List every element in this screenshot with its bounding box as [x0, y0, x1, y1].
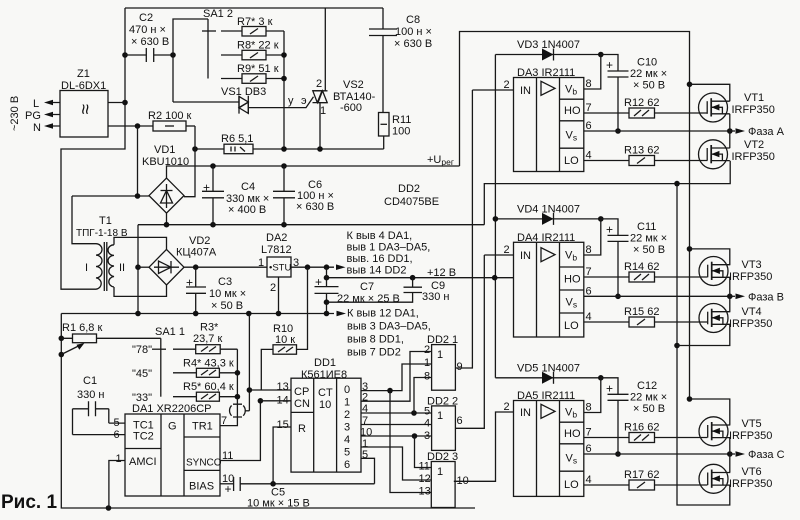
svg-text:HO: HO: [564, 428, 581, 440]
svg-text:DD2 3: DD2 3: [427, 451, 458, 463]
svg-text:VT2: VT2: [744, 139, 764, 151]
svg-text:10: 10: [319, 399, 331, 411]
svg-text:470 н ×: 470 н ×: [129, 24, 166, 36]
svg-text:4: 4: [424, 418, 430, 430]
svg-text:II: II: [119, 262, 125, 274]
resistor R2: [148, 110, 195, 131]
wire CP feed y=390: [249, 389, 291, 391]
wire +12V rail: [327, 277, 514, 279]
svg-text:выв 7 DD2: выв 7 DD2: [347, 347, 401, 359]
svg-text:PG: PG: [25, 110, 41, 122]
svg-text:+: +: [315, 275, 322, 289]
resistor R12 62: [584, 97, 708, 118]
svg-text:1: 1: [437, 349, 443, 361]
svg-text:330 н: 330 н: [422, 291, 449, 303]
svg-text:1: 1: [320, 105, 326, 117]
svg-text:22 мк ×: 22 мк ×: [630, 391, 667, 403]
wire R2 to VD1 right: [184, 126, 195, 197]
svg-text:4: 4: [344, 434, 350, 446]
svg-text:IN: IN: [520, 407, 531, 419]
svg-text:выв 14 DD2: выв 14 DD2: [347, 265, 407, 277]
op-amp driver DA4 IR2111: [514, 232, 584, 337]
svg-text:R3*: R3*: [200, 322, 219, 334]
svg-text:+12 В: +12 В: [427, 267, 456, 279]
wire DD2.1 out to DA3 IN: [455, 90, 472, 368]
svg-text:VD1: VD1: [154, 144, 175, 156]
node arrow to pins annotation 1: [336, 264, 346, 270]
wire N branch to VD1 left: [72, 126, 149, 196]
svg-text:R8* 22 к: R8* 22 к: [237, 40, 279, 52]
wire Vb pin 8 DA4: [584, 219, 601, 255]
transistor VT2 IRFP350: [699, 139, 775, 169]
resistor R15 62: [584, 306, 708, 327]
capacitor C6: [273, 166, 334, 225]
wire R3-R5 common to TR1: [220, 349, 237, 425]
svg-text:2: 2: [504, 244, 510, 256]
svg-text:6: 6: [586, 120, 592, 132]
svg-text:C1: C1: [83, 375, 97, 387]
svg-text:HO: HO: [564, 105, 581, 117]
svg-text:Фаза С: Фаза С: [748, 449, 785, 461]
svg-text:э: э: [301, 95, 307, 107]
transformer T1: [72, 196, 128, 291]
svg-text:IRFP350: IRFP350: [729, 430, 772, 442]
resistor R11: [379, 113, 412, 150]
svg-text:CD4075BE: CD4075BE: [384, 196, 439, 208]
svg-text:11: 11: [222, 450, 233, 462]
svg-text:Фаза А: Фаза А: [748, 126, 785, 138]
svg-text:VT4: VT4: [742, 306, 762, 318]
capacitor C7: [315, 267, 400, 313]
svg-text:2: 2: [270, 282, 276, 294]
wire jumper right to rail: [248, 314, 250, 411]
svg-text:IN: IN: [520, 250, 531, 262]
svg-text:LO: LO: [564, 479, 579, 491]
svg-text:22 мк × 25 В: 22 мк × 25 В: [337, 293, 400, 305]
resistor R14 62: [584, 261, 708, 282]
svg-text:5: 5: [362, 449, 368, 461]
resistor R17 62: [584, 469, 708, 490]
svg-text:10 мк × 15 В: 10 мк × 15 В: [247, 498, 310, 510]
svg-text:"45": "45": [132, 368, 152, 380]
pin 5 DA1: [109, 422, 125, 424]
wire VD1 minus rail y=224.7: [138, 213, 484, 225]
svg-text:LO: LO: [564, 155, 579, 167]
svg-text:3: 3: [344, 422, 350, 434]
resistor R7: [237, 16, 284, 36]
pin 10 DA1 BIAS: [220, 483, 234, 485]
svg-text:R17 62: R17 62: [624, 469, 659, 481]
svg-text:VS1 DB3: VS1 DB3: [221, 86, 266, 98]
switch SA1.2: [202, 8, 242, 79]
pin 1 DA1: [109, 461, 125, 509]
diode VD3 1N4007: [495, 39, 600, 61]
connector jumper X1: [230, 404, 250, 417]
svg-text:10: 10: [360, 427, 372, 439]
wire Vs pin 6 phase C: [584, 453, 730, 455]
svg-text:DL-6DX1: DL-6DX1: [61, 80, 106, 92]
svg-text:R16 62: R16 62: [624, 422, 659, 434]
svg-text:CT: CT: [318, 387, 333, 399]
svg-text:IRFP350: IRFP350: [729, 478, 772, 490]
pin 11 DA1 SYNCO: [220, 401, 260, 461]
wire out6 pin5 to reset loop: [361, 458, 375, 484]
svg-text:~230 В: ~230 В: [9, 96, 21, 131]
svg-text:Фаза В: Фаза В: [748, 291, 784, 303]
wire DA4 IN pin2: [484, 254, 513, 256]
svg-text:100: 100: [392, 126, 410, 138]
capacitor C12: [601, 378, 667, 454]
svg-text:6: 6: [344, 459, 350, 471]
svg-text:DA5 IR2111: DA5 IR2111: [517, 390, 575, 402]
wire Vs pin 6 phase A: [584, 130, 730, 132]
wire common rail y=313.5: [61, 313, 334, 315]
svg-text:R12 62: R12 62: [624, 97, 659, 109]
svg-text:22 мк ×: 22 мк ×: [630, 68, 667, 80]
wire DA2 output: [291, 266, 334, 268]
svg-text:1: 1: [344, 397, 350, 409]
svg-text:× 630 В: × 630 В: [296, 201, 334, 213]
svg-text:+: +: [225, 482, 232, 496]
svg-text:7: 7: [221, 415, 227, 427]
wire DA2 gnd pin2: [278, 277, 280, 314]
node junction dot Z1 upper: [122, 100, 128, 106]
svg-text:+: +: [203, 181, 210, 195]
regulator DA2 L7812: [258, 232, 299, 294]
svg-text:DA4 IR2111: DA4 IR2111: [517, 232, 575, 244]
svg-text:C3: C3: [218, 276, 232, 288]
svg-text:DD2 1: DD2 1: [427, 334, 458, 346]
svg-text:2: 2: [504, 79, 510, 91]
potentiometer R1: [61, 322, 161, 355]
rectifier VD2 КЦ407А: [138, 235, 217, 285]
svg-text:К выв 4 DA1,: К выв 4 DA1,: [347, 230, 413, 242]
counter DD1 К561ИЕ8: [291, 357, 361, 472]
svg-text:1: 1: [437, 410, 443, 422]
svg-text:LO: LO: [564, 320, 579, 332]
svg-text:R2 100 к: R2 100 к: [148, 110, 192, 122]
wire Z1 outputs: [108, 102, 125, 104]
capacitor C8: [369, 8, 432, 113]
svg-text:23,7 к: 23,7 к: [193, 333, 222, 345]
svg-text:5: 5: [424, 406, 430, 418]
svg-text:330 н: 330 н: [77, 389, 104, 401]
svg-text:× 400 В: × 400 В: [228, 204, 266, 216]
capacitor C10: [601, 55, 667, 132]
svg-text:10 мк ×: 10 мк ×: [209, 288, 246, 300]
wire secondary bottom to VD2: [114, 285, 167, 296]
svg-text:DD1: DD1: [314, 357, 336, 369]
wire DD2.2 out to DA4 IN: [455, 255, 484, 428]
svg-text:DA3 IR2111: DA3 IR2111: [517, 67, 575, 79]
svg-text:5: 5: [344, 447, 350, 459]
wire Vs pin 6 phase B: [584, 295, 730, 297]
diode VD4 1N4007: [495, 203, 600, 225]
svg-text:C2: C2: [139, 12, 153, 24]
svg-text:КЦ407А: КЦ407А: [176, 247, 217, 259]
svg-text:0: 0: [344, 384, 350, 396]
svg-text:1: 1: [424, 357, 430, 369]
resistor R6: [221, 133, 253, 154]
svg-text:выв. 16 DD1,: выв. 16 DD1,: [347, 253, 413, 265]
wire VT1 drain branch: [690, 84, 730, 101]
transistor VT4 IRFP350: [699, 304, 772, 333]
wire VT2 drain from phase A: [729, 131, 731, 148]
svg-text:SA1 2: SA1 2: [203, 8, 233, 20]
pin 6 DA1: [73, 434, 126, 436]
svg-text:R6 5,1: R6 5,1: [221, 133, 253, 145]
svg-text:-600: -600: [340, 102, 362, 114]
svg-text:выв 3 DA3–DA5,: выв 3 DA3–DA5,: [347, 321, 431, 333]
svg-text:8: 8: [586, 402, 592, 414]
wire R7-R9 common bar: [283, 31, 285, 149]
svg-text:× 50 В: × 50 В: [211, 300, 243, 312]
wire out2 pin4 to DD2.2 pin5 and DD2.1 pin8: [361, 412, 432, 414]
transistor VT3 IRFP350: [699, 257, 772, 286]
wire VT3 source to phase B: [729, 277, 731, 296]
wire left vertical x=61: [61, 314, 475, 509]
svg-text:CP: CP: [294, 386, 309, 398]
svg-text:7: 7: [362, 415, 368, 427]
svg-text:R13 62: R13 62: [624, 145, 659, 157]
svg-text:C12: C12: [637, 380, 657, 392]
svg-text:VT3: VT3: [742, 259, 762, 271]
svg-text:1: 1: [437, 466, 443, 478]
node junction dot L/C2: [122, 52, 128, 58]
svg-text:15: 15: [277, 419, 289, 431]
wire C2 to switch and diac: [173, 19, 208, 102]
svg-text:AMCI: AMCI: [129, 456, 157, 468]
gate DD2.2: [424, 396, 463, 451]
svg-text:× 630 В: × 630 В: [394, 38, 432, 50]
svg-text:IRFP350: IRFP350: [729, 318, 772, 330]
svg-text:8: 8: [424, 371, 430, 383]
svg-text:TC2: TC2: [133, 431, 154, 443]
svg-text:TR1: TR1: [192, 421, 213, 433]
svg-text:R5* 60,4 к: R5* 60,4 к: [183, 381, 234, 393]
wire DC minus riser x=138: [137, 225, 139, 314]
rectifier VD1 KBU1010: [142, 144, 189, 213]
svg-text:CN: CN: [294, 398, 310, 410]
svg-text:2: 2: [504, 401, 510, 413]
node junction dot C2 right: [170, 52, 176, 58]
svg-text:7: 7: [586, 102, 592, 114]
transistor VT1 IRFP350: [699, 92, 775, 122]
wire Vb pin 8 DA5: [584, 378, 601, 413]
svg-text:5: 5: [114, 417, 120, 429]
node phase output Фаза А: [727, 128, 733, 134]
svg-text:VS2: VS2: [343, 79, 364, 91]
svg-text:VT1: VT1: [744, 92, 764, 104]
capacitor C2: [125, 12, 173, 62]
svg-text:× 50 В: × 50 В: [633, 244, 665, 256]
op-amp driver DA5 IR2111: [514, 390, 584, 496]
svg-text:•STU: •STU: [269, 263, 291, 274]
transistor VT5 IRFP350: [699, 417, 772, 446]
svg-text:IRFP350: IRFP350: [732, 151, 775, 163]
svg-text:1: 1: [116, 453, 122, 465]
svg-text:+: +: [606, 381, 613, 395]
wire secondary top to VD2: [114, 237, 167, 249]
svg-text:+: +: [606, 58, 613, 72]
svg-text:R1 6,8 к: R1 6,8 к: [62, 322, 102, 334]
svg-text:R14 62: R14 62: [624, 261, 659, 273]
svg-text:HO: HO: [564, 274, 581, 286]
svg-text:11: 11: [419, 461, 430, 473]
svg-text:VT6: VT6: [742, 466, 762, 478]
svg-text:2: 2: [316, 78, 322, 90]
svg-text:× 630 В: × 630 В: [131, 36, 169, 48]
svg-text:DD2 2: DD2 2: [427, 396, 458, 408]
resistor R8: [237, 40, 284, 60]
svg-text:10 к: 10 к: [275, 334, 295, 346]
svg-text:VD4 1N4007: VD4 1N4007: [517, 203, 580, 215]
svg-text:C11: C11: [637, 221, 656, 233]
wire HV minus bus: [484, 161, 730, 225]
gate DD2.3: [419, 451, 469, 508]
svg-text:4: 4: [586, 474, 592, 486]
svg-text:× 50 В: × 50 В: [633, 80, 665, 92]
svg-text:выв 8 DD1,: выв 8 DD1,: [347, 334, 404, 346]
wire DD2.3 out to DA5 IN: [454, 412, 514, 481]
capacitor C9: [327, 278, 450, 303]
capacitor C11: [601, 219, 667, 296]
svg-text:100 н ×: 100 н ×: [395, 26, 432, 38]
wire VT3 drain branch: [690, 249, 730, 265]
node phase output Фаза В: [727, 294, 733, 300]
svg-text:IN: IN: [520, 85, 531, 97]
wire VT6 drain from phase C: [729, 454, 731, 472]
svg-text:1: 1: [258, 257, 264, 269]
resistor R16 62: [584, 422, 708, 443]
filter Z1 DL-6DX1: [60, 68, 108, 137]
gate DD2.1: [424, 334, 463, 390]
svg-text:N: N: [33, 122, 41, 134]
svg-text:SYNCO: SYNCO: [186, 458, 222, 469]
svg-text:К выв 12 DA1,: К выв 12 DA1,: [347, 308, 419, 320]
svg-text:7: 7: [586, 427, 592, 439]
svg-text:R11: R11: [392, 114, 411, 126]
svg-text:C8: C8: [406, 14, 420, 26]
svg-text:22 мк ×: 22 мк ×: [630, 232, 667, 244]
pin 14 wire: [260, 400, 291, 402]
svg-text:13: 13: [419, 486, 431, 498]
svg-text:VD5 1N4007: VD5 1N4007: [517, 362, 580, 374]
node terminals L PG N: [9, 96, 60, 134]
svg-text:3: 3: [424, 430, 430, 442]
node arrow to pins annotation 2: [337, 311, 347, 317]
capacitor C5: [225, 477, 375, 510]
svg-text:2: 2: [344, 409, 350, 421]
diode VD5 1N4007: [495, 362, 600, 384]
wire VT4 drain from phase B: [729, 296, 731, 311]
svg-text:2: 2: [424, 344, 430, 356]
svg-text:6: 6: [457, 415, 463, 427]
svg-text:IRFP350: IRFP350: [732, 104, 775, 116]
wire VT5 drain branch: [690, 399, 730, 425]
svg-text:13: 13: [277, 381, 289, 393]
resistor R13 62: [584, 145, 708, 166]
capacitor C1: [73, 375, 109, 435]
svg-text:SA1 1: SA1 1: [155, 326, 185, 338]
resistor R5: [183, 381, 237, 401]
wire out0 pin3 to DD2.1 pin1 and DD2.3 pin13: [361, 364, 432, 391]
resistor R10: [261, 267, 307, 390]
svg-text:6: 6: [586, 443, 592, 455]
diac VS1 DB3: [173, 86, 314, 114]
wire Vb pin 8 DA3: [584, 55, 601, 90]
wire out3 pin7 to DD2.2 pin4: [361, 424, 432, 426]
svg-text:Z1: Z1: [77, 68, 90, 80]
op-amp driver DA3 IR2111: [514, 67, 584, 172]
capacitor C3: [186, 267, 246, 313]
svg-text:C7: C7: [360, 281, 374, 293]
svg-text:выв 1 DA3–DA5,: выв 1 DA3–DA5,: [347, 242, 431, 254]
svg-text:DA1 XR2206CP: DA1 XR2206CP: [132, 403, 212, 415]
wire VT1 source to phase A: [729, 114, 731, 131]
node phase output Фаза С: [727, 451, 733, 457]
svg-text:L: L: [33, 98, 39, 110]
svg-text:I: I: [85, 262, 88, 274]
wire +Upeg bus top: [460, 32, 690, 400]
wire VT5 source to phase C: [729, 438, 731, 455]
svg-text:VD3 1N4007: VD3 1N4007: [517, 39, 580, 51]
wire out4 pin10 to DD2.2 pin3 and DD2.3 pin11: [361, 435, 432, 437]
wire VD2 out to DA2: [184, 266, 267, 268]
svg-text:DA2: DA2: [266, 232, 287, 244]
transistor VT6 IRFP350: [699, 464, 772, 493]
svg-text:VD2: VD2: [189, 235, 210, 247]
svg-text:R4* 43,3 к: R4* 43,3 к: [183, 358, 234, 370]
svg-text:7: 7: [586, 266, 592, 278]
svg-text:4: 4: [586, 311, 592, 323]
capacitor C4: [202, 166, 269, 225]
wire R6 output rail y=149: [195, 148, 384, 150]
svg-text:8: 8: [586, 78, 592, 90]
resistor R4: [183, 358, 237, 378]
svg-text:C4: C4: [241, 181, 255, 193]
svg-text:BIAS: BIAS: [189, 481, 214, 493]
triac VS2: [313, 8, 376, 149]
wire C5 to R pin15: [273, 427, 291, 484]
svg-text:G: G: [168, 421, 177, 433]
svg-text:8: 8: [586, 244, 592, 256]
svg-text:R15 62: R15 62: [624, 306, 659, 318]
svg-text:R7* 3 к: R7* 3 к: [237, 16, 273, 28]
wire +12V riser to VD3-VD5: [494, 55, 496, 378]
svg-text:C10: C10: [637, 57, 657, 69]
switch SA1.1: [132, 326, 196, 404]
svg-text:L7812: L7812: [261, 244, 292, 256]
svg-text:9: 9: [457, 361, 463, 373]
svg-text:6: 6: [586, 285, 592, 297]
node mains top wire: [125, 7, 383, 9]
wire out1 pin2 to DD2.1 pin2: [361, 352, 432, 402]
svg-text:× 50 В: × 50 В: [633, 403, 665, 415]
chip DA1 XR2206CP: [125, 403, 222, 496]
svg-text:4: 4: [586, 150, 592, 162]
svg-text:T1: T1: [99, 215, 112, 227]
svg-text:IRFP350: IRFP350: [729, 271, 772, 283]
resistor R3: [193, 322, 237, 354]
svg-text:R: R: [298, 423, 306, 435]
svg-text:К561ИЕ8: К561ИЕ8: [301, 369, 347, 381]
svg-text:у: у: [288, 95, 294, 107]
svg-text:+: +: [606, 222, 613, 236]
svg-text:≈: ≈: [74, 104, 95, 114]
svg-text:"78": "78": [132, 344, 152, 356]
wire DA3 IN pin2: [472, 89, 513, 91]
